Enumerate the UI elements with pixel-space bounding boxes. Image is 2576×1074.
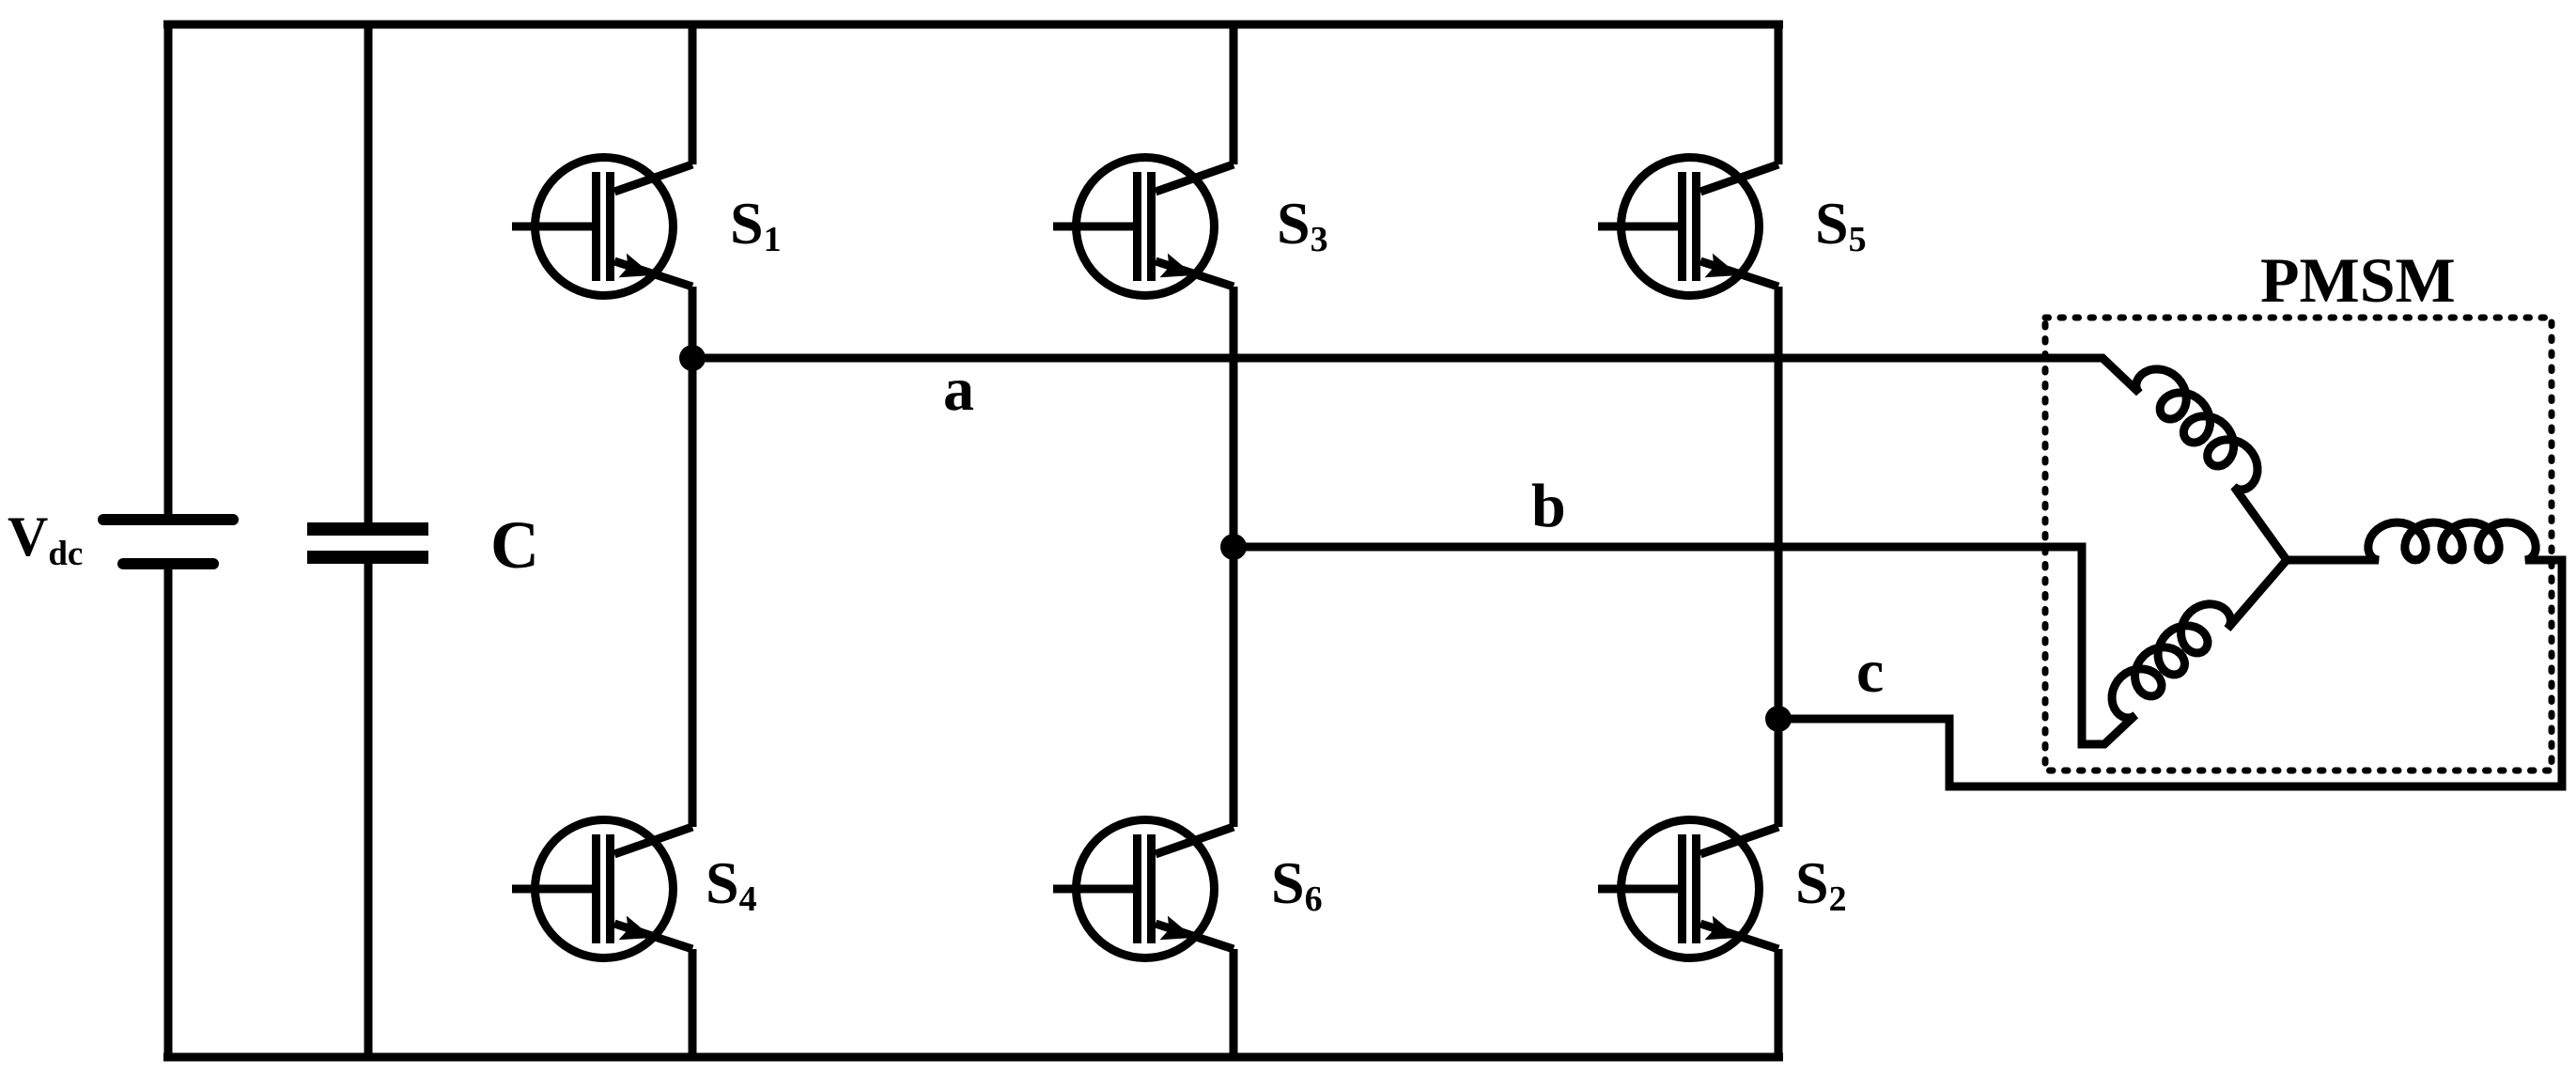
- wire phase a with winding a: [692, 358, 2287, 560]
- wire capacitor branch lower: [365, 564, 373, 1057]
- wire leg1 top: [689, 21, 697, 164]
- wire top DC rail: [163, 21, 1783, 29]
- wire phase b with winding b: [1234, 547, 2287, 744]
- wire leg3 middle: [1775, 287, 1783, 827]
- svg-text:PMSM: PMSM: [2260, 244, 2456, 316]
- svg-text:a: a: [943, 355, 974, 424]
- svg-text:b: b: [1531, 472, 1566, 540]
- wire leg1 bottom: [689, 949, 697, 1061]
- wire leg2 bottom: [1230, 949, 1238, 1061]
- wire leg3 bottom: [1775, 949, 1783, 1061]
- transistor S1: [512, 158, 692, 296]
- svg-text:c: c: [1856, 637, 1884, 706]
- wire leg2 middle: [1230, 287, 1238, 827]
- wire leg2 top: [1230, 21, 1238, 164]
- wire leg3 top: [1775, 21, 1783, 164]
- wire capacitor branch upper: [365, 21, 373, 522]
- PMSM dashed box: [2045, 318, 2552, 770]
- dc source Vdc battery plate short: [123, 558, 213, 569]
- capacitor C plate bottom: [307, 551, 428, 564]
- node b: [1220, 534, 1247, 560]
- wire phase c with winding c: [1778, 522, 2562, 786]
- node c: [1765, 706, 1792, 732]
- transistor S2: [1598, 820, 1778, 958]
- transistor S6: [1053, 820, 1234, 958]
- capacitor C plate top: [307, 522, 428, 536]
- wire leg1 middle: [689, 287, 697, 827]
- wire bottom DC rail: [163, 1053, 1783, 1062]
- transistor S4: [512, 820, 692, 958]
- dc source Vdc battery plate long: [103, 514, 233, 525]
- transistor S3: [1053, 158, 1234, 296]
- wire battery branch upper: [164, 21, 173, 515]
- svg-text:C: C: [490, 507, 539, 583]
- node a: [679, 345, 706, 371]
- wire battery branch lower: [164, 569, 173, 1057]
- transistor S5: [1598, 158, 1778, 296]
